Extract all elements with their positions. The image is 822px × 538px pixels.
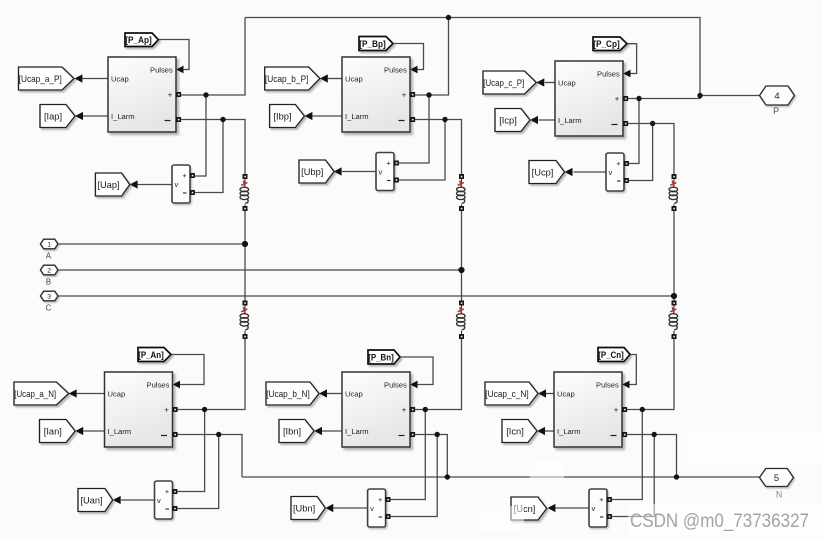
subsystem block upper arm phase C (Cp): [555, 61, 623, 136]
Goto tag [Icn]: [502, 420, 537, 443]
pin + (vCn): [607, 497, 612, 502]
From tag [P_Bn]: [368, 350, 400, 364]
Goto tag [Ucap_a_N]: [14, 382, 69, 405]
svg-text:Pulses: Pulses: [596, 381, 619, 390]
svg-text:[P_Cp]: [P_Cp]: [593, 38, 620, 49]
wire Bp I_Larm to [Ibp]: [312, 115, 342, 117]
svg-text:[P_Bp]: [P_Bp]: [359, 38, 386, 49]
wire Bn v- branch: [390, 435, 437, 517]
svg-text:CSDN @m0_73736327: CSDN @m0_73736327: [630, 510, 809, 532]
pin - (vAn): [172, 506, 177, 511]
svg-text:v: v: [609, 168, 613, 177]
Goto tag [Ibp]: [270, 105, 305, 128]
voltage measurement block lower arm C voltage (vCn): [589, 489, 607, 527]
svg-text:I_Larm: I_Larm: [108, 427, 132, 436]
svg-text:v: v: [592, 504, 596, 513]
arrowhead into [Ucn]: [547, 504, 555, 512]
Goto tag [Ucap_c_P]: [483, 71, 536, 94]
node AC node C: [671, 293, 677, 299]
svg-text:[P_Cn]: [P_Cn]: [598, 349, 624, 360]
node Bp minus junction (v-): [442, 117, 447, 122]
wire Bn v+ branch: [390, 410, 425, 500]
wire P bus: [245, 18, 700, 96]
node N bus junction phase B: [445, 474, 450, 479]
label - (vBn): [379, 516, 383, 518]
port label - (Cn): [611, 435, 617, 437]
arrowhead into [Ucap_b_P]: [320, 74, 328, 82]
svg-text:[Ucap_b_N]: [Ucap_b_N]: [266, 389, 310, 399]
pin Pulses input arrow (An): [173, 381, 180, 389]
svg-text:+: +: [599, 495, 603, 504]
svg-text:Ucap: Ucap: [557, 390, 575, 399]
svg-text:+: +: [386, 159, 390, 168]
pin - (vBp): [394, 178, 399, 183]
pin Pulses input arrow (Cp): [623, 70, 630, 78]
wire Bp Ucap to [Ucap_b_P]: [328, 78, 342, 80]
arrowhead into [Ucap_c_P]: [536, 78, 544, 86]
Goto tag [Ucap_b_N]: [266, 382, 319, 405]
wire upper arm C plus: [624, 96, 701, 99]
watermark background patches: [686, 431, 822, 466]
svg-text:Pulses: Pulses: [150, 66, 173, 75]
Goto tag [Uap]: [95, 173, 129, 196]
Goto tag [Ubn]: [291, 497, 325, 520]
node Ap plus junction (v+): [203, 92, 208, 97]
inductor lower arm A (series RL arm branch): [240, 301, 249, 340]
pin + (vCp): [624, 161, 629, 166]
svg-text:2: 2: [47, 267, 51, 274]
pin + port (Cp): [623, 96, 628, 101]
subsystem block lower arm phase B (Bn): [342, 372, 410, 447]
pin - port (Cn): [622, 432, 627, 437]
From tag [P_Cn]: [598, 348, 630, 362]
svg-text:+: +: [402, 405, 407, 414]
node Cp plus junction (v+): [636, 96, 641, 101]
label - (vAp): [183, 192, 187, 194]
pin - (vCn): [607, 514, 612, 519]
arrowhead into [Ibp]: [304, 112, 312, 120]
svg-text:Pulses: Pulses: [147, 381, 170, 390]
pin Pulses input arrow (Bp): [410, 66, 417, 74]
wire phase B lower inductor to Bn plus: [415, 338, 462, 410]
svg-text:[P_An]: [P_An]: [138, 349, 164, 360]
node Bn minus junction (v-): [435, 432, 440, 437]
arrowhead into [Uan]: [113, 496, 121, 504]
svg-text:Ucap: Ucap: [345, 75, 363, 84]
wire B v- branch: [399, 120, 446, 181]
wire input port 2 lead (phase B): [58, 269, 462, 271]
svg-text:P: P: [773, 106, 779, 116]
svg-text:5: 5: [774, 473, 779, 484]
wire Cn I_Larm to [Icn]: [545, 430, 554, 432]
svg-text:I_Larm: I_Larm: [345, 112, 369, 121]
wire vCp output to [Ucp]: [574, 171, 607, 173]
pin + (vAn): [172, 489, 177, 494]
wire C v+ branch: [629, 99, 640, 164]
node AC node B: [458, 267, 464, 273]
wire upper arm A minus to arm inductor: [177, 120, 246, 176]
wire vBn output to [Ubn]: [334, 507, 368, 509]
svg-text:+: +: [165, 487, 169, 496]
wire Cp I_Larm to [Icp]: [539, 119, 556, 121]
pin - port (Ap): [176, 117, 181, 122]
voltage measurement block lower arm B voltage (vBn): [368, 489, 386, 527]
From tag [P_Cp]: [593, 37, 627, 51]
subsystem block lower arm phase C (Cn): [554, 372, 622, 447]
wire vCn output to [Ucn]: [556, 507, 590, 509]
wire [P_Bn] to Bn Pulses: [400, 357, 433, 385]
svg-text:Ucap: Ucap: [345, 390, 363, 399]
Goto tag [Ucap_a_P]: [19, 67, 75, 90]
wire vAn output to [Uan]: [121, 499, 155, 501]
svg-text:[Ucap_b_P]: [Ucap_b_P]: [265, 74, 309, 84]
svg-text:Pulses: Pulses: [384, 381, 407, 390]
wire phase A lower inductor to An plus: [177, 338, 245, 410]
arrowhead into [Ian]: [75, 427, 83, 435]
wire vAp output to [Uap]: [138, 184, 173, 186]
inductor upper arm A (series RL arm branch): [240, 174, 249, 211]
node Cp minus junction (v-): [650, 121, 655, 126]
svg-text:[Icp]: [Icp]: [499, 115, 517, 125]
Goto tag [Ucp]: [529, 161, 565, 184]
connection port 1 (input A): [40, 239, 58, 249]
pin + (vBp): [394, 161, 399, 166]
wire phase B column upper-to-AC: [461, 210, 463, 302]
svg-text:[Icn]: [Icn]: [506, 426, 524, 436]
svg-text:[Ucap_a_P]: [Ucap_a_P]: [19, 74, 62, 84]
connection port 3 (input C): [40, 291, 58, 301]
svg-text:Pulses: Pulses: [597, 70, 620, 79]
arrowhead into [Ucp]: [565, 168, 573, 176]
svg-text:[Ucap_a_N]: [Ucap_a_N]: [14, 389, 56, 399]
svg-text:Pulses: Pulses: [384, 66, 407, 75]
wire input port 3 lead (phase C): [58, 295, 674, 297]
svg-text:N: N: [776, 490, 782, 500]
node N bus junction phase C: [674, 474, 679, 479]
wire vBp output to [Ubp]: [342, 171, 376, 173]
arrowhead into [Icp]: [530, 116, 538, 124]
svg-text:4: 4: [774, 91, 779, 102]
pin Pulses input arrow (Cn): [622, 381, 629, 389]
wire [P_An] to An Pulses: [171, 355, 204, 385]
svg-text:Ucap: Ucap: [108, 390, 126, 399]
wire lower arm B minus to N bus: [415, 435, 447, 478]
connection port 5 (output N): [760, 469, 794, 487]
wire Bn Ucap to [Ucap_b_N]: [327, 393, 342, 395]
Goto tag [Ucap_c_N]: [485, 382, 538, 405]
svg-text:[Ibp]: [Ibp]: [273, 111, 291, 121]
node An plus junction (v+): [202, 407, 207, 412]
svg-text:+: +: [614, 405, 619, 414]
wire An v- branch: [177, 435, 219, 509]
label - (vCp): [617, 180, 621, 182]
wire phase C column upper-to-AC: [673, 210, 675, 302]
node AC node A: [242, 241, 248, 247]
svg-text:I_Larm: I_Larm: [111, 112, 135, 121]
svg-text:[Ucap_c_P]: [Ucap_c_P]: [483, 78, 524, 88]
voltage measurement block upper arm B voltage (vBp): [376, 153, 394, 191]
wire phase C lower inductor to Cn plus: [627, 338, 675, 410]
node An minus junction (v-): [216, 432, 221, 437]
wire upper arm A plus to P bus riser: [177, 18, 246, 96]
wire Bn I_Larm to [Ibn]: [322, 430, 342, 432]
svg-text:[Ian]: [Ian]: [44, 426, 62, 436]
pin - port (Bp): [410, 117, 415, 122]
wire upper arm B plus riser: [411, 18, 449, 96]
svg-text:[Uap]: [Uap]: [97, 180, 119, 190]
svg-text:+: +: [402, 90, 407, 99]
wire [P_Cp] to Cp Pulses: [627, 44, 637, 74]
svg-text:I_Larm: I_Larm: [345, 427, 369, 436]
inductor lower arm B (series RL arm branch): [457, 301, 466, 340]
svg-text:[Ucap_c_N]: [Ucap_c_N]: [485, 389, 529, 399]
arrowhead into [Ucap_a_P]: [74, 74, 82, 82]
arrowhead into [Ubn]: [325, 504, 333, 512]
svg-text:v: v: [157, 496, 161, 505]
wire Ap Ucap to [Ucap_a_P]: [82, 78, 108, 80]
Goto tag [Ucap_b_P]: [265, 67, 320, 90]
voltage measurement block upper arm A voltage (vAp): [172, 165, 190, 203]
wire upper arm C minus to arm inductor: [624, 124, 675, 176]
arrowhead into [Ucap_c_N]: [538, 389, 546, 397]
svg-text:B: B: [46, 278, 51, 287]
label - (vCn): [600, 516, 604, 518]
wire A v- branch: [195, 120, 224, 193]
pin + (vAp): [190, 173, 195, 178]
svg-text:[Iap]: [Iap]: [44, 111, 62, 121]
node P bus junction phase C: [697, 93, 702, 98]
arrowhead into [Iap]: [75, 112, 83, 120]
svg-text:1: 1: [47, 241, 51, 248]
svg-text:[Ucp]: [Ucp]: [532, 167, 554, 177]
pin - (vBn): [386, 514, 391, 519]
wire N bus: [242, 476, 760, 478]
port label - (Cp): [612, 124, 618, 126]
arrowhead into [Icn]: [537, 427, 545, 435]
arrowhead into [Uap]: [130, 180, 138, 188]
arrowhead into [Ucap_a_N]: [69, 389, 77, 397]
pin + port (Cn): [622, 407, 627, 412]
pin - (vCp): [624, 178, 629, 183]
svg-text:C: C: [46, 304, 52, 313]
svg-text:v: v: [370, 504, 374, 513]
pin Pulses input arrow (Ap): [176, 66, 183, 74]
wire An v+ branch: [177, 410, 205, 492]
node P bus junction phase B: [446, 15, 451, 20]
svg-text:I_Larm: I_Larm: [558, 116, 582, 125]
wire Ap I_Larm to [Iap]: [83, 115, 108, 117]
node Bn plus junction (v+): [423, 407, 428, 412]
pin - port (Bn): [410, 432, 415, 437]
svg-text:[Ubp]: [Ubp]: [301, 167, 323, 177]
svg-text:+: +: [378, 495, 382, 504]
pin - port (Cp): [623, 121, 628, 126]
svg-text:[P_Bn]: [P_Bn]: [368, 351, 394, 362]
subsystem block lower arm phase A (An): [105, 372, 173, 447]
pin + port (Ap): [176, 92, 181, 97]
port label - (Ap): [165, 120, 171, 122]
Goto tag [Uan]: [78, 489, 113, 512]
inductor upper arm C (series RL arm branch): [669, 174, 678, 211]
pin - (vAp): [190, 190, 195, 195]
wire Cp Ucap to [Ucap_c_P]: [545, 82, 555, 84]
From tag [P_An]: [138, 348, 171, 362]
arrowhead into [Ucap_b_N]: [319, 389, 327, 397]
voltage measurement block lower arm A voltage (vAn): [155, 481, 173, 519]
label - (vAn): [166, 508, 170, 510]
svg-text:Ucap: Ucap: [111, 75, 129, 84]
pin + port (Bn): [410, 407, 415, 412]
port label - (An): [161, 435, 167, 437]
Goto tag [Ubp]: [299, 160, 334, 183]
From tag [P_Ap]: [125, 33, 158, 47]
Goto tag [Ian]: [40, 420, 76, 443]
node Ap minus junction (v-): [220, 117, 225, 122]
subsystem block upper arm phase B (Bp): [342, 57, 410, 132]
arrowhead into [Ibn]: [314, 427, 322, 435]
port label - (Bn): [399, 435, 405, 437]
wire An I_Larm to [Ian]: [83, 430, 104, 432]
voltage measurement block upper arm C voltage (vCp): [606, 153, 624, 191]
pin - port (An): [173, 432, 178, 437]
Goto tag [Ibn]: [279, 420, 314, 443]
pin + (vBn): [386, 497, 391, 502]
wire [P_Cn] to Cn Pulses: [628, 355, 636, 385]
connection port 2 (input B): [40, 265, 58, 275]
wire upper arm B minus to arm inductor: [411, 120, 462, 176]
node Cn plus junction (v+): [640, 407, 645, 412]
wire [P_Ap] to Ap Pulses: [158, 40, 189, 70]
svg-text:+: +: [168, 90, 173, 99]
pin + port (Bp): [410, 92, 415, 97]
svg-text:I_Larm: I_Larm: [557, 427, 581, 436]
pin Pulses input arrow (Bn): [410, 381, 417, 389]
svg-text:[Ibn]: [Ibn]: [283, 426, 301, 436]
wire P bus to output port 4: [700, 95, 760, 97]
wire Cn v- branch: [611, 435, 654, 517]
Goto tag [Iap]: [40, 105, 75, 128]
svg-text:v: v: [379, 168, 383, 177]
wire C v- branch: [629, 124, 653, 181]
wire lower arm C minus to N bus: [627, 435, 677, 478]
Goto tag [Icp]: [495, 109, 530, 132]
wire lower arm A minus to N bus: [177, 435, 242, 478]
svg-text:[Uan]: [Uan]: [80, 495, 102, 505]
svg-text:v: v: [175, 180, 179, 189]
port label - (Bp): [399, 120, 405, 122]
label - (vBp): [387, 180, 391, 182]
wire input port 1 lead (phase A): [58, 243, 245, 245]
svg-text:A: A: [46, 252, 52, 261]
inductor lower arm C (series RL arm branch): [669, 301, 678, 340]
svg-text:+: +: [615, 94, 620, 103]
arrowhead into [Ubp]: [334, 167, 342, 175]
svg-text:Ucap: Ucap: [558, 79, 576, 88]
Goto tag [Ucn]: [511, 497, 547, 520]
wire [P_Bp] to Bp Pulses: [393, 44, 424, 70]
svg-text:[P_Ap]: [P_Ap]: [125, 34, 152, 45]
node Bp plus junction (v+): [426, 92, 431, 97]
svg-text:3: 3: [47, 293, 51, 300]
wire Cn v+ branch: [611, 410, 642, 500]
connection port 4 (output P): [760, 86, 795, 105]
inductor upper arm B (series RL arm branch): [457, 174, 466, 211]
pin + port (An): [173, 407, 178, 412]
svg-text:[Ubn]: [Ubn]: [293, 503, 315, 513]
wire Cn Ucap to [Ucap_c_N]: [546, 393, 554, 395]
wire A v+ branch: [195, 95, 207, 176]
svg-text:+: +: [616, 159, 620, 168]
wire B v+ branch: [399, 95, 430, 163]
subsystem block upper arm phase A (Ap): [108, 57, 176, 132]
wire An Ucap to [Ucap_a_N]: [77, 393, 105, 395]
From tag [P_Bp]: [359, 37, 393, 51]
svg-text:+: +: [164, 405, 169, 414]
node Cn minus junction (v-): [652, 432, 657, 437]
wire phase A column upper-to-AC: [244, 210, 246, 302]
svg-text:+: +: [182, 171, 186, 180]
